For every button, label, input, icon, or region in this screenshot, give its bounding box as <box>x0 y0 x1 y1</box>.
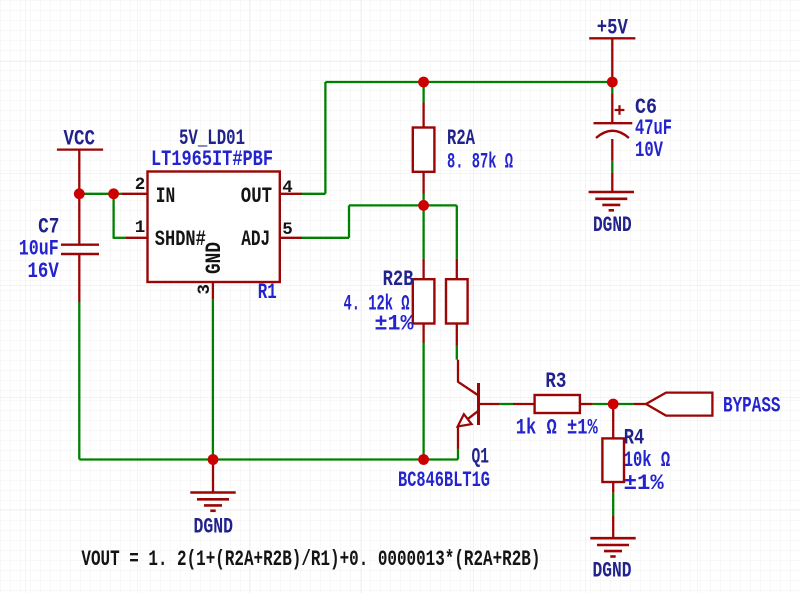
svg-text:DGND: DGND <box>194 514 234 539</box>
svg-text:Q1: Q1 <box>472 445 490 470</box>
svg-text:VCC: VCC <box>64 127 96 152</box>
svg-text:R2A: R2A <box>447 126 476 151</box>
svg-text:R1: R1 <box>258 280 277 305</box>
svg-text:±1%: ±1% <box>624 471 665 496</box>
svg-text:5: 5 <box>282 220 293 240</box>
svg-text:8. 87k Ω: 8. 87k Ω <box>447 150 513 175</box>
svg-text:DGND: DGND <box>593 213 632 238</box>
svg-text:R2B: R2B <box>383 267 414 292</box>
svg-text:10k Ω: 10k Ω <box>624 448 671 473</box>
svg-text:GND: GND <box>202 242 227 274</box>
svg-text:DGND: DGND <box>593 559 632 584</box>
svg-text:10uF: 10uF <box>19 237 59 262</box>
svg-text:3: 3 <box>195 284 215 295</box>
svg-text:1: 1 <box>135 218 146 238</box>
svg-text:10V: 10V <box>635 138 664 163</box>
svg-text:BYPASS: BYPASS <box>723 394 781 419</box>
svg-text:16V: 16V <box>28 259 60 284</box>
svg-text:VOUT = 1. 2(1+(R2A+R2B)/R1)+0.: VOUT = 1. 2(1+(R2A+R2B)/R1)+0. 0000013*(… <box>81 547 540 572</box>
svg-text:BC846BLT1G: BC846BLT1G <box>398 468 490 493</box>
svg-text:±1%: ±1% <box>375 311 415 336</box>
svg-text:SHDN#: SHDN# <box>155 227 206 252</box>
svg-text:4: 4 <box>282 178 293 198</box>
svg-text:ADJ: ADJ <box>241 227 270 252</box>
svg-text:R4: R4 <box>624 425 645 450</box>
svg-text:+5V: +5V <box>597 16 629 41</box>
svg-text:R3: R3 <box>545 369 566 394</box>
svg-text:LT1965IT#PBF: LT1965IT#PBF <box>151 147 273 172</box>
svg-text:IN: IN <box>156 184 176 209</box>
svg-text:1k Ω ±1%: 1k Ω ±1% <box>516 416 599 441</box>
svg-text:2: 2 <box>135 175 146 195</box>
svg-text:OUT: OUT <box>241 184 272 209</box>
